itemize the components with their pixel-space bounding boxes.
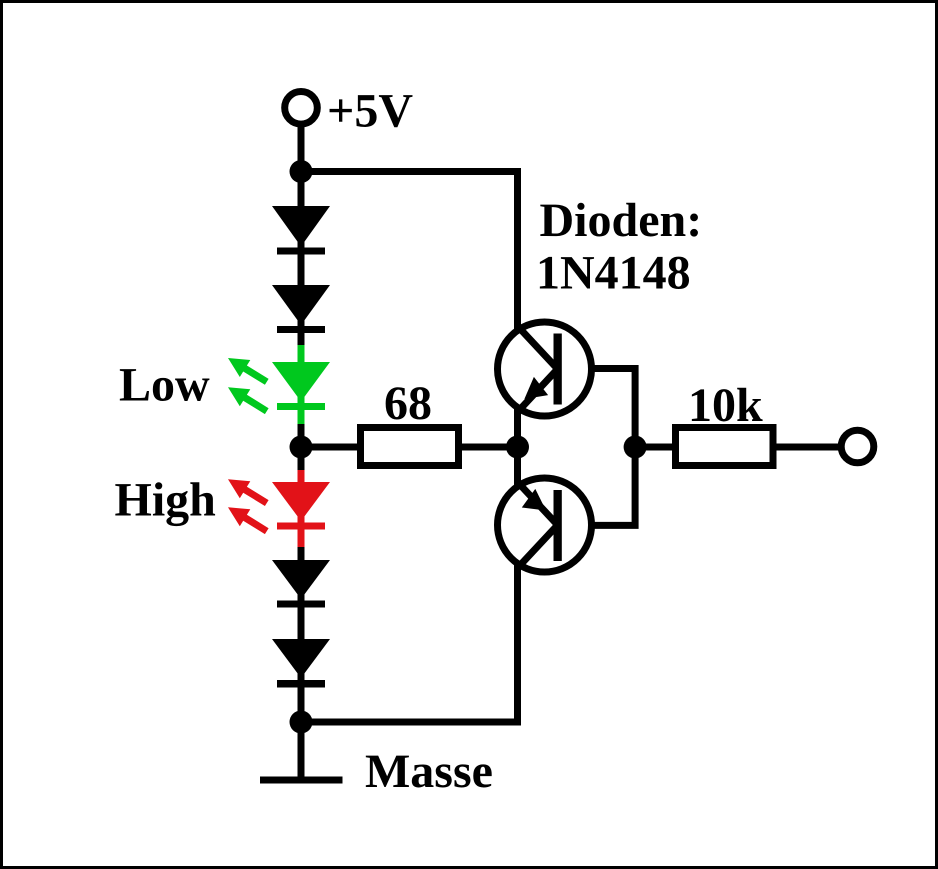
svg-text:+5V: +5V [327, 84, 413, 137]
svg-text:68: 68 [384, 377, 432, 430]
svg-text:Low: Low [119, 359, 210, 412]
svg-text:1N4148: 1N4148 [536, 247, 691, 300]
svg-text:High: High [115, 474, 216, 527]
svg-text:Dioden:: Dioden: [540, 194, 703, 247]
svg-text:10k: 10k [688, 379, 763, 432]
svg-text:Masse: Masse [365, 745, 493, 798]
